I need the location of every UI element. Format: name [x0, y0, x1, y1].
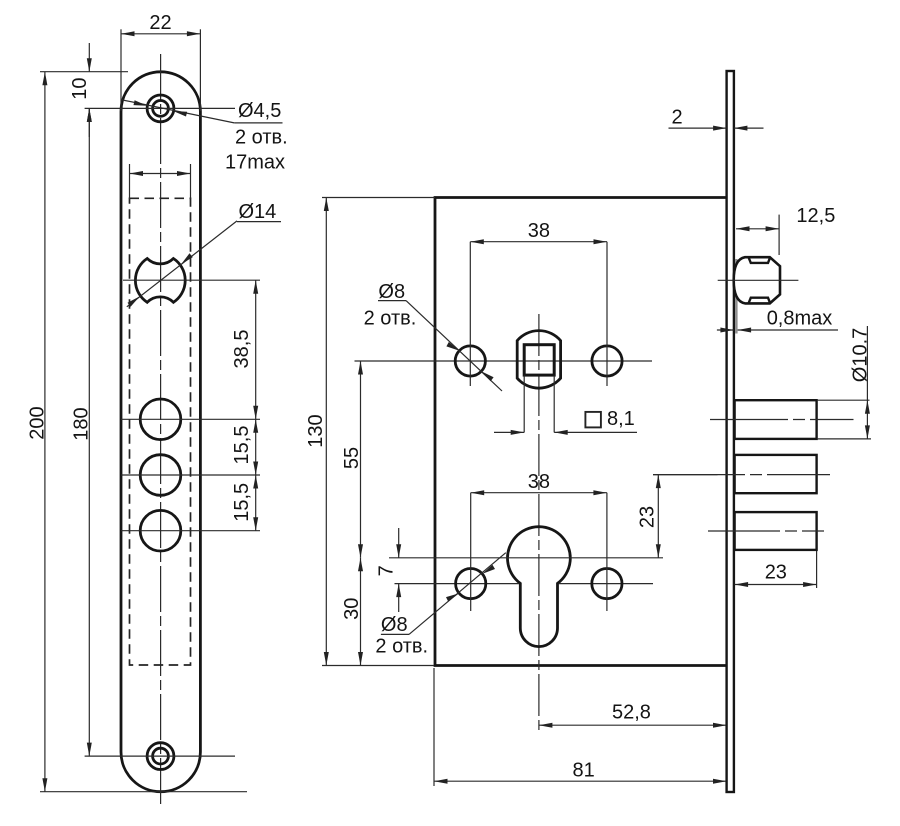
svg-text:2: 2 — [671, 107, 682, 129]
dim 7 arrows — [398, 528, 400, 558]
svg-text:Ø8: Ø8 — [378, 281, 405, 303]
D14 underline — [237, 221, 281, 223]
dim 23 vertical line — [657, 475, 659, 558]
cylinder axis line — [389, 557, 663, 559]
body vertical centerline — [538, 314, 540, 730]
lower D8 label leader — [409, 553, 506, 635]
D14 axis line — [123, 279, 260, 281]
svg-text:200: 200 — [27, 406, 49, 439]
faceplate outline — [121, 72, 200, 792]
faceplate vertical centerline — [160, 54, 162, 806]
hole row 3 — [140, 510, 181, 551]
upper hole right centerline — [606, 242, 608, 386]
svg-text:22: 22 — [149, 12, 171, 34]
svg-text:Ø10.7: Ø10.7 — [850, 328, 872, 382]
svg-text:2 отв.: 2 отв. — [375, 636, 428, 658]
svg-text:0,8max: 0,8max — [767, 308, 833, 330]
svg-text:10: 10 — [69, 77, 91, 99]
bottom extension line — [40, 791, 247, 793]
dim 2 right arrow — [734, 127, 764, 129]
dim D10.7 line — [866, 326, 868, 439]
svg-text:12,5: 12,5 — [796, 205, 835, 227]
svg-text:30: 30 — [341, 598, 363, 620]
top screw hole axis — [85, 107, 235, 109]
cylinder hole euro profile — [507, 527, 570, 647]
lower hole left centerline — [470, 493, 472, 611]
dim 130 bottom extension — [322, 665, 434, 667]
dim 38 lower line — [471, 492, 607, 494]
dim 180 line — [88, 108, 90, 756]
svg-text:Ø4,5: Ø4,5 — [238, 100, 281, 122]
dim 200 line — [44, 72, 46, 792]
dim 12,5 extension — [778, 215, 780, 255]
dim 17max line — [130, 173, 191, 175]
bottom screw hole inner — [153, 748, 169, 764]
svg-text:Ø8: Ø8 — [381, 614, 408, 636]
deadbolt pin 2 centerline — [653, 474, 830, 476]
upper axis line — [355, 360, 653, 362]
upper D8 label leader — [406, 301, 502, 391]
deadbolt pin 3 centerline — [708, 530, 824, 532]
svg-text:23: 23 — [765, 562, 787, 584]
dim 0,8max arrows — [717, 329, 734, 331]
dim 38 upper line — [470, 241, 607, 243]
dim 22 line — [121, 33, 200, 35]
svg-text:130: 130 — [305, 414, 327, 447]
D4,5 leader — [121, 100, 234, 123]
dim 22 extension lines — [120, 29, 122, 111]
lower holes axis line right — [559, 583, 653, 585]
deadbolt pin 1 — [735, 400, 817, 439]
svg-text:52,8: 52,8 — [612, 702, 651, 724]
upper hole left centerline — [469, 242, 471, 386]
lower holes axis line left — [395, 583, 520, 585]
dim 8,1 arrows — [494, 431, 524, 433]
bottom screw hole outer — [147, 743, 174, 770]
dim 23 right extension — [653, 474, 718, 476]
dim 23 bottom line — [735, 584, 817, 586]
dim 12,5 line — [736, 228, 779, 230]
svg-text:8,1: 8,1 — [607, 408, 635, 430]
spindle hole D14 — [135, 259, 185, 303]
follower hub outer — [517, 331, 560, 389]
hole row 1 — [140, 399, 181, 440]
top extension line — [40, 71, 128, 73]
svg-text:Ø14: Ø14 — [239, 201, 277, 223]
hole row 1 axis — [121, 418, 260, 420]
svg-text:15,5: 15,5 — [231, 483, 253, 522]
D4,5 underline — [234, 122, 282, 124]
dim 2 left arrow — [669, 127, 727, 129]
svg-text:15,5: 15,5 — [231, 426, 253, 465]
upper hole left D8 — [455, 346, 485, 376]
svg-text:17max: 17max — [225, 152, 285, 174]
upper D8 label underline — [378, 300, 406, 302]
dim 55 line — [360, 361, 362, 558]
latch top notch — [749, 257, 771, 263]
hole row 2 axis — [121, 474, 260, 476]
svg-text:2 отв.: 2 отв. — [364, 308, 417, 330]
dim 130 top extension — [322, 197, 435, 199]
follower square 8,1 — [524, 345, 554, 375]
hole row 3 axis — [121, 530, 260, 532]
svg-text:38: 38 — [528, 220, 550, 242]
svg-text:38: 38 — [528, 471, 550, 493]
D14 leader — [127, 221, 237, 307]
latch rear stub 0,8 — [735, 259, 737, 334]
top screw hole outer — [147, 95, 174, 122]
bottom screw hole axis — [85, 755, 235, 757]
square extension lines — [523, 376, 525, 433]
dim 22 arrows — [121, 31, 135, 36]
svg-text:81: 81 — [573, 760, 595, 782]
dim D10.7 bottom extension — [817, 438, 871, 440]
dim 15,5 line — [255, 419, 257, 530]
lower hole right D8 — [592, 569, 622, 599]
upper hole right D8 — [592, 346, 622, 376]
dim 38,5 line — [255, 280, 257, 419]
svg-text:38,5: 38,5 — [231, 330, 253, 369]
dim 81 line — [434, 780, 727, 782]
svg-text:7: 7 — [376, 565, 398, 576]
dim 30 line — [360, 558, 362, 666]
deadbolt pin 1 centerline — [710, 419, 854, 421]
top screw hole inner — [153, 101, 169, 117]
svg-text:23: 23 — [637, 506, 659, 528]
svg-text:2 отв.: 2 отв. — [235, 127, 288, 149]
svg-text:180: 180 — [71, 407, 93, 440]
cutout dashed rectangle 17max — [130, 198, 191, 665]
lower hole right centerline — [606, 493, 608, 611]
latch bolt side profile — [734, 257, 780, 303]
lower D8 label underline — [381, 633, 409, 635]
body outline — [435, 198, 727, 666]
dim 10 arrows — [88, 43, 90, 72]
dim 52,8 line — [539, 724, 727, 726]
svg-text:55: 55 — [341, 447, 363, 469]
hole row 2 — [140, 455, 181, 496]
dim 81 left extension — [433, 668, 435, 786]
latch bottom notch — [749, 298, 771, 304]
faceplate side edge — [727, 71, 734, 792]
deadbolt pin 3 — [735, 512, 817, 550]
deadbolt pin 2 — [735, 455, 817, 493]
dim D10.7 top extension — [817, 399, 870, 401]
dim 130 line — [325, 198, 327, 666]
square symbol 8,1 — [585, 412, 601, 428]
latch axis line — [718, 279, 799, 281]
dim 23 bottom extension — [816, 551, 818, 588]
dim 17max extension lines — [129, 164, 131, 199]
lower hole left D8 — [456, 569, 486, 599]
